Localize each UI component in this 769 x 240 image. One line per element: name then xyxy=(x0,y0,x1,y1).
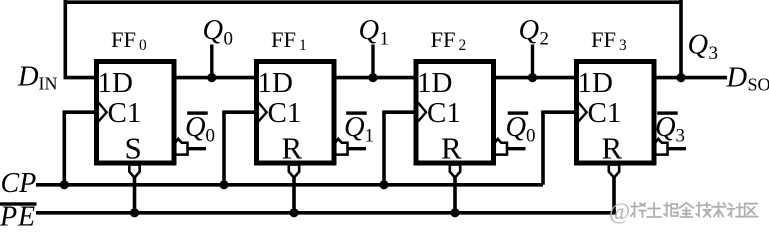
wire: FF3 clock vertical riser from CP bus xyxy=(541,112,545,185)
svg-text:Q: Q xyxy=(655,112,676,143)
flip-flop FF0 box xyxy=(97,62,175,164)
label inverted-Q0 of FF0 (overline) xyxy=(187,111,208,114)
junction dot: FF0 clock on CP bus xyxy=(60,180,69,189)
label PE (active low) overline xyxy=(0,202,37,205)
FF3 inverted output polarity flag xyxy=(655,139,667,155)
wire: FF1 inverted output stub xyxy=(347,147,367,150)
FF1 clock edge triangle xyxy=(259,103,267,122)
flip-flop FF3 box xyxy=(577,62,655,164)
junction dot: node Q3 / DSO xyxy=(676,73,685,82)
svg-text:CP: CP xyxy=(1,168,37,199)
svg-text:C1: C1 xyxy=(108,97,142,129)
junction dot: FF0 S on PE bus xyxy=(130,208,139,217)
svg-text:SO: SO xyxy=(748,75,769,95)
junction dot: FF1 clock on CP bus xyxy=(219,180,228,189)
svg-text:3: 3 xyxy=(619,37,627,54)
junction dot: FF1 R on PE bus xyxy=(289,208,298,217)
svg-text:S: S xyxy=(125,131,142,166)
svg-text:E: E xyxy=(17,201,35,230)
wire: feedback right vertical down to DSO node xyxy=(679,0,683,78)
wire: FF1 clock vertical down to CP bus xyxy=(222,112,226,185)
svg-text:0: 0 xyxy=(206,126,216,147)
junction dot: FF2 R on PE bus xyxy=(450,208,459,217)
svg-text:1D: 1D xyxy=(98,67,133,99)
svg-text:D: D xyxy=(17,61,39,92)
label inverted-Q1 of FF1 (overline) xyxy=(346,111,367,114)
wire: FF2 C1 clock horizontal lead xyxy=(382,110,415,114)
junction dot: node Q0 xyxy=(207,73,216,82)
svg-text:1: 1 xyxy=(299,37,307,54)
wire: DIN to FF0 1D input xyxy=(64,76,97,80)
FF1 inverted output polarity flag xyxy=(335,139,347,155)
FF0 inverted output polarity flag xyxy=(175,139,187,155)
FF2 inverted output polarity flag xyxy=(495,139,507,155)
svg-text:@: @ xyxy=(609,199,630,224)
svg-text:0: 0 xyxy=(139,37,147,54)
svg-text:IN: IN xyxy=(39,74,58,94)
label inverted-Q3 of FF3 (overline) xyxy=(657,111,678,114)
svg-text:1D: 1D xyxy=(417,67,452,99)
svg-text:P: P xyxy=(0,201,17,230)
svg-text:Q: Q xyxy=(506,112,527,143)
svg-text:Q: Q xyxy=(203,15,224,46)
wire: FF3 inverted output stub xyxy=(667,147,687,150)
svg-text:3: 3 xyxy=(676,126,686,147)
svg-text:C1: C1 xyxy=(427,97,461,129)
FF3 clock edge triangle xyxy=(579,103,587,122)
svg-text:FF: FF xyxy=(111,27,136,52)
wire: FF2 clock vertical down to CP bus xyxy=(382,112,386,185)
wire: PE bus horizontal xyxy=(36,211,616,215)
svg-text:1D: 1D xyxy=(578,67,613,99)
wire: FF1 R pin vertical down to PE bus xyxy=(292,176,296,213)
wire: FF2 Q to FF3 1D xyxy=(494,76,576,80)
wire: feedback left vertical down to DIN node xyxy=(64,0,68,78)
wire: Q2 vertical stub xyxy=(531,45,534,78)
svg-text:FF: FF xyxy=(271,27,296,52)
svg-text:D: D xyxy=(726,63,748,94)
svg-text:0: 0 xyxy=(526,126,536,147)
junction dot: node Q1 xyxy=(368,73,377,82)
svg-text:Q: Q xyxy=(359,15,380,46)
svg-text:C1: C1 xyxy=(588,97,622,129)
wire: FF0 Q to FF1 1D xyxy=(175,76,257,80)
svg-text:2: 2 xyxy=(459,37,467,54)
wire: FF1 C1 clock horizontal lead xyxy=(222,110,256,114)
svg-text:1: 1 xyxy=(380,29,390,50)
FF2 clock edge triangle xyxy=(418,103,426,122)
FF0 active-low S pin polarity flag xyxy=(129,165,139,178)
svg-text:C1: C1 xyxy=(268,97,302,129)
label inverted-Q0 of FF2 (overline) xyxy=(508,111,529,114)
svg-text:1D: 1D xyxy=(258,67,293,99)
FF3 active-low R pin polarity flag xyxy=(609,165,619,178)
flip-flop FF1 box xyxy=(257,62,335,164)
svg-text:1: 1 xyxy=(365,126,375,147)
svg-text:Q: Q xyxy=(519,15,540,46)
wire: FF2 inverted output stub xyxy=(506,147,526,150)
wire: FF2 R pin vertical down to PE bus xyxy=(453,176,457,213)
svg-text:0: 0 xyxy=(224,29,234,50)
junction dot: FF2 clock on CP bus xyxy=(379,180,388,189)
flip-flop FF2 box xyxy=(416,62,494,164)
wire: FF0 C1 clock horizontal lead xyxy=(63,110,97,114)
wire: FF3 R pin vertical down to PE bus xyxy=(612,176,616,213)
wire: FF0 inverted output stub xyxy=(187,147,207,150)
svg-text:FF: FF xyxy=(591,27,616,52)
FF1 active-low R pin polarity flag xyxy=(289,165,299,178)
wire: Q1 vertical stub xyxy=(371,45,374,78)
svg-text:3: 3 xyxy=(709,43,719,64)
wire: FF3 C1 clock horizontal lead xyxy=(541,110,576,114)
svg-text:R: R xyxy=(602,131,623,166)
FF0 clock edge triangle xyxy=(99,103,107,122)
watermark: juejin community (gray) xyxy=(609,199,758,224)
wire: top feedback rail Q3 to DIN xyxy=(65,0,681,4)
wire: FF0 S pin vertical down to PE bus xyxy=(133,176,137,213)
wire: FF0 clock vertical down to CP bus xyxy=(63,112,67,185)
svg-text:R: R xyxy=(441,131,462,166)
svg-text:FF: FF xyxy=(431,27,456,52)
wire: FF3 Q to DSO output xyxy=(655,76,728,80)
wire: FF1 Q to FF2 1D xyxy=(335,76,416,80)
svg-text:2: 2 xyxy=(540,29,550,50)
FF2 active-low R pin polarity flag xyxy=(450,165,460,178)
junction dot: node Q2 xyxy=(528,73,537,82)
svg-text:Q: Q xyxy=(344,112,365,143)
svg-text:Q: Q xyxy=(185,112,206,143)
svg-text:Q: Q xyxy=(688,30,709,61)
wire: CP bus horizontal xyxy=(36,183,543,187)
wire: Q0 vertical stub xyxy=(210,45,213,78)
svg-text:R: R xyxy=(282,131,303,166)
